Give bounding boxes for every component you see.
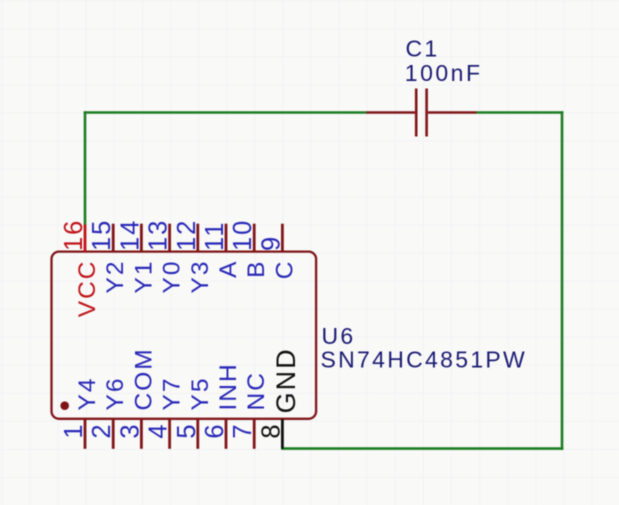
wire bottom horizontal [281, 447, 563, 450]
wire VCC top horizontal [84, 111, 367, 114]
svg-text:NC: NC [243, 371, 270, 410]
pin 12 stub [196, 224, 199, 252]
svg-text:VCC: VCC [74, 260, 101, 318]
svg-text:11: 11 [201, 221, 229, 251]
IC U6 body [52, 252, 317, 419]
svg-text:C1: C1 [406, 36, 440, 62]
svg-text:Y5: Y5 [187, 377, 214, 411]
svg-text:1: 1 [60, 422, 88, 438]
pin 5 stub [196, 419, 199, 449]
svg-text:Y6: Y6 [102, 377, 129, 411]
capacitor C1 [367, 89, 477, 137]
pin 9 stub [281, 224, 284, 252]
svg-text:10: 10 [229, 219, 257, 251]
pin 15 stub [112, 224, 115, 252]
pin 10 stub [253, 224, 256, 252]
pin 2 stub [112, 419, 115, 449]
pin-1 marker dot [60, 401, 69, 410]
svg-text:5: 5 [173, 422, 201, 438]
pin 7 stub [253, 419, 256, 449]
svg-text:Y2: Y2 [102, 260, 129, 294]
svg-text:12: 12 [173, 219, 201, 251]
svg-text:3: 3 [116, 422, 144, 438]
svg-text:GND: GND [271, 347, 301, 413]
svg-text:Y0: Y0 [159, 260, 186, 294]
svg-text:16: 16 [60, 219, 88, 251]
svg-text:Y7: Y7 [159, 377, 186, 411]
pin 1 stub [84, 419, 87, 449]
wire right vertical [561, 111, 564, 450]
svg-text:Y1: Y1 [130, 260, 157, 294]
svg-text:INH: INH [215, 362, 242, 410]
pin 6 stub [225, 419, 228, 449]
svg-text:A: A [215, 260, 242, 278]
svg-text:14: 14 [116, 219, 144, 251]
svg-text:15: 15 [88, 219, 116, 251]
wire VCC left vertical [84, 111, 87, 225]
svg-text:8: 8 [257, 422, 285, 438]
svg-text:9: 9 [257, 235, 285, 251]
pin 11 stub [225, 224, 228, 252]
svg-text:100nF: 100nF [405, 60, 483, 86]
svg-text:C: C [271, 260, 298, 280]
pin 14 stub [140, 224, 143, 252]
svg-text:7: 7 [229, 422, 257, 438]
pin 4 stub [168, 419, 171, 449]
svg-text:B: B [243, 260, 270, 278]
pin 16 stub (VCC, red) [84, 225, 87, 252]
pin 8 stub (GND, black) [281, 419, 284, 449]
svg-text:Y3: Y3 [187, 260, 214, 294]
svg-text:6: 6 [201, 422, 229, 438]
svg-text:4: 4 [145, 422, 173, 438]
svg-text:SN74HC4851PW: SN74HC4851PW [321, 347, 528, 373]
wire cap to top-right corner [477, 111, 564, 114]
pin 3 stub [140, 419, 143, 449]
svg-text:2: 2 [88, 422, 116, 438]
svg-text:13: 13 [145, 219, 173, 251]
svg-text:U6: U6 [322, 323, 356, 349]
svg-text:COM: COM [130, 347, 157, 410]
pin 13 stub [168, 224, 171, 252]
svg-text:Y4: Y4 [74, 377, 101, 411]
